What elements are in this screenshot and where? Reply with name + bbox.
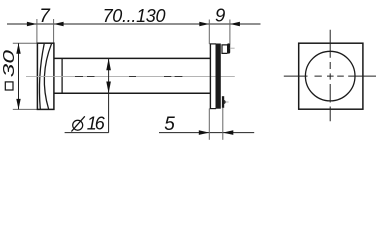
centerline of barrel (dash-dot) — [26, 75, 235, 77]
extension line top for square-30 dim — [13, 42, 37, 44]
svg-text:7: 7 — [39, 6, 51, 27]
square symbol of square-30 label — [5, 82, 13, 90]
front view circle (cover disc) — [305, 51, 355, 101]
cover disc (thick dark band) — [216, 44, 221, 109]
extension line right of flange (7 dim, right tick) — [53, 19, 55, 44]
vertical centerline of front view — [329, 30, 331, 122]
svg-text:30: 30 — [0, 50, 18, 78]
cover tab (bottom knob) — [222, 96, 226, 108]
outer plate left face — [209, 44, 211, 109]
extension line at outer plate left face (9 dim, left tick) — [208, 20, 210, 44]
eyepiece flange (square 30 body, side view) — [37, 43, 54, 109]
arrow pointing left at x=229.9 — [230, 22, 240, 26]
svg-text:16: 16 — [87, 113, 106, 133]
dimension text 7 — [39, 6, 51, 27]
arrow pointing right at x=209.3 — [199, 22, 209, 26]
arrow pointing left at x=53.6 — [54, 22, 64, 26]
extension line at plate left face (5 dim) — [208, 109, 210, 140]
arrow pointing right at x=209.3 (5 dim) — [199, 130, 210, 135]
extension line bottom for square-30 dim — [13, 108, 37, 110]
pivot screw head (top knob) — [222, 43, 230, 53]
svg-text:5: 5 — [164, 114, 175, 135]
top dimension line (chain for 7 / 70...130 / 9) — [7, 23, 261, 25]
outer plate top edge — [210, 43, 216, 45]
barrel top edge — [54, 57, 211, 59]
dimension text 5 — [164, 114, 175, 135]
extension line at cover right face (5 dim) — [222, 108, 224, 140]
diameter-16 label underline — [65, 132, 109, 134]
diameter symbol — [71, 116, 84, 131]
dimension text 9 — [215, 5, 225, 26]
lens outer arc — [39, 44, 44, 109]
arrow pointing up at barrel top — [106, 58, 111, 70]
front view square plate — [299, 43, 363, 109]
outer plate bottom edge — [210, 108, 216, 110]
svg-text:9: 9 — [215, 5, 225, 26]
vertical dimension line square-30 — [18, 43, 20, 109]
dimension text 16 — [87, 113, 106, 133]
screw axis stub — [230, 47, 235, 49]
bottom dimension line for 5 — [159, 132, 254, 134]
tab axis stub — [226, 101, 229, 103]
horizontal centerline of front view — [284, 75, 376, 77]
arrow pointing right at x=36.9 — [27, 22, 37, 26]
arrow pointing left at x=222.8 (5 dim) — [223, 130, 234, 135]
dimension text 30 (rotated) — [0, 50, 18, 78]
arrow pointing down at barrel bottom — [106, 82, 111, 94]
svg-text:70...130: 70...130 — [103, 6, 166, 26]
extension line left of flange (7 dim, left tick) — [36, 19, 38, 43]
dimension text 70...130 — [103, 6, 166, 26]
arrow pointing down at y=109.4 — [16, 99, 20, 110]
lens inner arc — [44, 44, 51, 109]
barrel step line — [61, 58, 63, 93]
barrel bottom edge — [54, 92, 211, 94]
extension line at knob tip (9 dim, right tick) — [229, 20, 231, 45]
diameter-16 dimension shaft — [108, 58, 110, 132]
arrow pointing up at y=43.2 — [16, 43, 20, 54]
